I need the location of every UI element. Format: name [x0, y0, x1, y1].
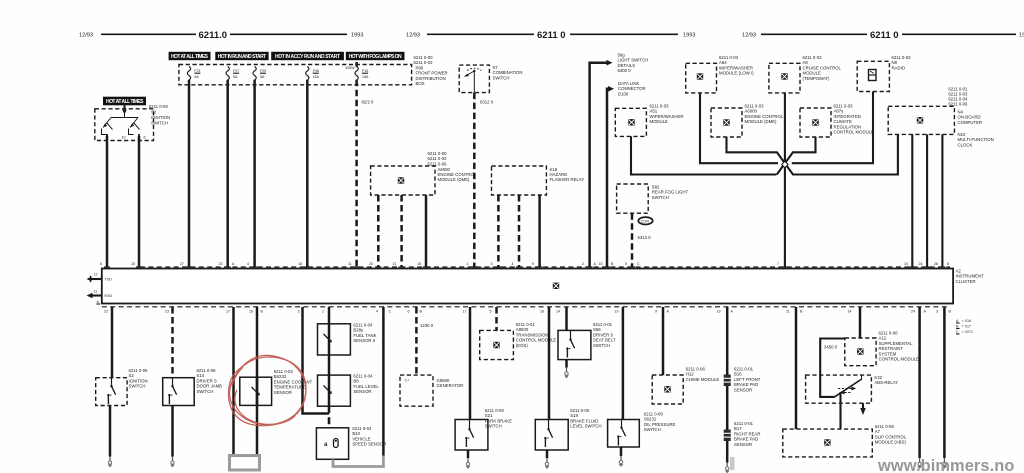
hot with fog lamps on label — [346, 52, 405, 60]
wire A6000 right to splice X (elbow diagonal) — [727, 134, 898, 174]
grey scan smudge left of watermark — [730, 457, 735, 470]
svg-text:SWITCH: SWITCH — [493, 75, 510, 80]
A87y label text — [834, 104, 875, 135]
wire N4 to cluster pin 10 — [911, 134, 913, 267]
header page 2 right rule — [570, 33, 678, 35]
N4 reference numbers — [948, 87, 968, 107]
svg-text:6312 0: 6312 0 — [638, 235, 652, 240]
wire B28y to fuel level sensor — [328, 355, 331, 375]
svg-text:18: 18 — [417, 262, 421, 266]
svg-text:5A: 5A — [233, 75, 238, 79]
wire S7 to cluster pin 1 (dash-dot) — [473, 93, 476, 267]
N8 label text — [892, 55, 912, 70]
wire A6000 pin to cluster pin 21 (dashed) — [400, 195, 403, 267]
cluster bottom pin numbers — [104, 310, 952, 314]
wire cluster pin 17 down (to greyed area) — [232, 307, 235, 456]
wire SRS to ABS relay (elbow) — [820, 339, 845, 397]
header page 3 right rule — [902, 33, 1016, 35]
A7 connector icon — [824, 439, 831, 446]
wire cluster pin 24 to ground — [918, 307, 921, 458]
K18 label text — [550, 167, 585, 182]
svg-text:6211 0: 6211 0 — [537, 30, 566, 41]
S18 switch contact — [544, 420, 552, 447]
svg-text:= X17: = X17 — [962, 325, 972, 329]
svg-text:SWITCH: SWITCH — [652, 195, 669, 200]
B6232 sensor symbol — [252, 387, 260, 395]
svg-text:1993: 1993 — [1019, 33, 1024, 39]
svg-text:6211 0-06: 6211 0-06 — [428, 161, 448, 166]
legend A=X16 B=X17 C=X271 — [956, 319, 973, 334]
svg-text:17: 17 — [226, 310, 230, 314]
S6231 label text — [644, 412, 676, 433]
slip control module A7 dashed box — [783, 429, 873, 457]
svg-text:SWITCH: SWITCH — [485, 424, 502, 429]
right rear brake pad sensor B17 connector — [724, 430, 731, 442]
svg-text:15A: 15A — [313, 75, 320, 79]
wire cluster pin 17 to park brake switch S21 — [469, 307, 472, 420]
svg-text:6: 6 — [144, 136, 146, 140]
svg-text:15A: 15A — [362, 75, 369, 79]
svg-text:= X16: = X16 — [962, 319, 972, 323]
svg-text:20: 20 — [369, 262, 373, 266]
A12 label text — [879, 331, 920, 362]
svg-text:8: 8 — [947, 262, 949, 266]
B28y wire inside — [328, 324, 331, 355]
wire cluster pin 16 through coolant sensor — [256, 307, 259, 456]
ground at pin 3 wire — [942, 458, 947, 469]
oil pressure switch S6231 box — [608, 420, 640, 448]
svg-text:24: 24 — [919, 262, 923, 266]
svg-text:ABS-RELAY: ABS-RELAY — [874, 380, 898, 385]
svg-text:F20: F20 — [260, 69, 266, 73]
svg-text:9: 9 — [655, 310, 657, 314]
B8 wire inside — [328, 375, 331, 406]
A6000 right connector icon — [723, 119, 730, 126]
transmission control module A8500 dashed box — [480, 330, 514, 359]
fuse F20 5A — [253, 67, 266, 81]
A8 connector icon — [781, 73, 788, 80]
svg-text:IGNITION: IGNITION — [151, 115, 170, 120]
ignition switch S2 dashed box — [95, 109, 154, 141]
radio N8 dashed box — [857, 61, 889, 91]
K32 label text — [874, 375, 898, 385]
wire K18 to cluster pin 3 (dashed) — [497, 195, 500, 267]
light switch details label text — [618, 53, 649, 74]
svg-text:19: 19 — [615, 310, 619, 314]
wire S2 left output to cluster pin 6 — [106, 136, 109, 267]
ABS relay K32 dashed box — [806, 375, 872, 403]
driver's seat belt switch S56 box — [558, 330, 591, 359]
ground at brake pad sensors — [725, 463, 730, 473]
svg-text:16: 16 — [298, 262, 302, 266]
A51 connector icon — [628, 119, 635, 126]
header page 3 left rule — [761, 33, 867, 35]
svg-text:GENERATOR: GENERATOR — [437, 383, 464, 388]
N4 connector icon — [917, 117, 924, 124]
wire cluster pin 4 down — [382, 307, 385, 456]
fuse F15 15A — [355, 67, 369, 81]
combination switch S7 dashed box — [459, 65, 489, 93]
SRS control module A12 dashed box — [845, 338, 876, 366]
wire to light switch details (elbow with arrow) — [590, 60, 613, 267]
svg-text:1993: 1993 — [683, 33, 695, 39]
svg-text:SWITCH: SWITCH — [129, 384, 146, 389]
hot in accy run and start label — [271, 52, 344, 60]
A6000 label text — [438, 167, 477, 182]
svg-text:16: 16 — [540, 310, 544, 314]
svg-text:SENSOR: SENSOR — [734, 387, 752, 392]
svg-text:23: 23 — [165, 310, 169, 314]
hot at all times label (ignition) — [103, 97, 146, 106]
instrument cluster A2 bus rectangle — [102, 269, 953, 304]
wire fuse F46 to cluster pin 16 — [306, 80, 309, 267]
wire S21 to ground — [467, 450, 470, 458]
svg-text:CONTROL MODULE: CONTROL MODULE — [879, 357, 920, 362]
wire cluster pin 19 to brake pad sensors — [726, 307, 729, 463]
svg-text:RXD: RXD — [105, 294, 113, 298]
wire S18 to ground — [546, 450, 549, 458]
svg-text:SWITCH: SWITCH — [151, 121, 168, 126]
vehicle speed sensor B10 box — [316, 428, 348, 460]
wire K32 to ground — [862, 403, 864, 408]
ground at S14 — [170, 457, 175, 468]
svg-text:HOT WITH FOG LAMPS ON: HOT WITH FOG LAMPS ON — [349, 54, 402, 60]
A6000 reference numbers — [428, 151, 448, 166]
svg-text:MODULE (DME): MODULE (DME) — [438, 177, 471, 182]
wire cluster pin 11 to slip control module — [795, 307, 798, 429]
svg-text:5A: 5A — [194, 75, 199, 79]
ignition switch S2 lower dashed box — [96, 378, 127, 406]
svg-text:10: 10 — [122, 136, 126, 140]
svg-text:9: 9 — [532, 262, 534, 266]
wire cluster pin 3 to ground — [943, 307, 946, 458]
svg-text:6312 0: 6312 0 — [480, 100, 494, 105]
svg-text:F21: F21 — [194, 69, 200, 73]
cruise control module A8 dashed box — [769, 63, 800, 93]
H12 connector icon — [664, 386, 671, 393]
header page 2 left rule — [427, 33, 534, 35]
svg-text:LEVEL SWITCH: LEVEL SWITCH — [570, 424, 601, 429]
red annotation circle around coolant sensor — [228, 355, 306, 425]
svg-text:CON: CON — [641, 219, 649, 223]
svg-text:HOT IN RUN AND START: HOT IN RUN AND START — [218, 54, 267, 60]
wire cluster pin 23 to door jamb switch S14 (dashed) — [171, 307, 174, 378]
svg-text:12/93: 12/93 — [406, 33, 420, 39]
brake fluid level switch S18 box — [535, 420, 568, 451]
svg-text:5: 5 — [625, 262, 627, 266]
wire K18 to cluster pin 4 (dashed) — [518, 195, 521, 267]
wire cluster pin 14 to seat belt switch S56 — [565, 307, 568, 330]
wire S56 to ground — [565, 360, 568, 368]
svg-text:HOT IN ACCY RUN AND START: HOT IN ACCY RUN AND START — [275, 54, 340, 60]
svg-text:3450 0: 3450 0 — [824, 345, 838, 350]
A12 connector icon — [857, 348, 864, 355]
greyed wire elbow speed sensor to pin 4 wire — [333, 456, 383, 467]
wire cluster pin 22 to ignition switch S2 lower — [111, 307, 114, 378]
ground at S21 — [466, 458, 471, 469]
wiper/washer module A64 dashed box — [686, 63, 717, 93]
svg-text:1: 1 — [322, 310, 324, 314]
cluster connector icon — [553, 282, 560, 289]
B8 sensor symbol — [324, 386, 332, 394]
svg-text:24: 24 — [911, 310, 915, 314]
svg-text:MODULE (DME): MODULE (DME) — [745, 119, 778, 124]
wire A8 down through splice X to cluster pin 7 — [784, 93, 786, 267]
splice X center diamond — [782, 161, 789, 168]
A2 instrument cluster label — [956, 269, 985, 284]
ground at S18 — [545, 458, 550, 469]
ground at S6231 — [619, 456, 624, 467]
svg-text:3: 3 — [491, 262, 493, 266]
wire cluster pin 6 to generator (dashed) — [415, 307, 418, 375]
B8 label text — [353, 374, 379, 395]
A8500 label text — [516, 322, 557, 348]
wire fuse F21 to cluster pin 27 — [188, 80, 191, 267]
wire N4 to cluster pin 26 — [941, 134, 943, 267]
svg-text:MODULE (ABS): MODULE (ABS) — [875, 440, 907, 445]
svg-text:6300 0: 6300 0 — [618, 68, 632, 73]
svg-text:1230 0: 1230 0 — [420, 323, 434, 328]
B10 internal symbols — [324, 439, 338, 449]
wire S2 lower to ground — [109, 406, 112, 457]
wiper/washer module A51 dashed box — [615, 108, 646, 136]
B28y label text — [353, 323, 376, 344]
hazard flasher relay K18 dashed box — [492, 166, 547, 195]
svg-text:SWITCH: SWITCH — [197, 389, 214, 394]
wire N8 to splice X (elbow) — [792, 92, 873, 164]
engine control module A6000 dashed box (right) — [711, 108, 742, 137]
wire K18 to cluster pin 9 — [538, 195, 541, 267]
wire A51 to splice X (elbow) — [631, 136, 777, 174]
data link connector label text — [618, 81, 646, 96]
svg-text:S2: S2 — [151, 110, 157, 115]
wire A6000 pin to cluster pin 18 — [425, 195, 428, 267]
svg-text:MODULE: MODULE — [650, 119, 669, 124]
svg-text:11: 11 — [94, 290, 98, 294]
hot at all times label (fusebox) — [169, 52, 211, 60]
S82 label text — [652, 185, 689, 200]
svg-text:CHIME MODULE: CHIME MODULE — [686, 377, 720, 382]
S56 label text — [593, 322, 616, 348]
wire S14 to ground — [171, 406, 174, 457]
svg-text:SENSOR: SENSOR — [353, 389, 371, 394]
svg-text:11: 11 — [786, 310, 790, 314]
inline connector oval — [638, 217, 652, 224]
svg-text:6211 0-06: 6211 0-06 — [948, 102, 968, 107]
B17 label text — [734, 421, 760, 447]
fuel level sensor B8 box — [318, 375, 351, 406]
svg-text:1993: 1993 — [351, 33, 363, 39]
svg-text:6211 0-00: 6211 0-00 — [149, 104, 169, 109]
S56 switch contact — [566, 331, 574, 358]
ground triangle at K32 — [860, 408, 866, 415]
wire cluster pin 5 to transmission control module (dashed) — [495, 307, 498, 330]
RXD pin 11 arrow — [87, 290, 113, 305]
svg-text:17: 17 — [463, 310, 467, 314]
A6000 connector icon — [398, 177, 405, 184]
S14 switch contact — [168, 377, 176, 404]
wire A87y to splice X (elbow diagonal) — [777, 137, 816, 175]
cluster top pin numbers — [100, 262, 949, 266]
svg-text:15: 15 — [131, 262, 135, 266]
svg-text:SPEED SENSOR: SPEED SENSOR — [352, 442, 386, 447]
svg-text:C: C — [637, 262, 640, 266]
svg-text:5A: 5A — [260, 75, 265, 79]
svg-text:3: 3 — [298, 310, 300, 314]
svg-text:19: 19 — [717, 310, 721, 314]
on-board computer N4 dashed box — [888, 106, 954, 134]
S18 label text — [570, 408, 601, 429]
svg-text:COMPUTER: COMPUTER — [958, 120, 983, 125]
svg-text:82/2 0: 82/2 0 — [362, 100, 375, 105]
wire A64 to splice X (elbow) — [700, 93, 778, 163]
driver's door jamb switch S14 box — [163, 378, 195, 406]
engine control module A6000 dashed box (left) — [371, 166, 435, 195]
svg-text:www.bimmers.no: www.bimmers.no — [877, 457, 1015, 473]
svg-text:C+: C+ — [405, 379, 410, 383]
fuse F27 5A — [226, 67, 239, 81]
P80 box label text — [414, 55, 448, 86]
fuse F21 5A — [187, 67, 200, 81]
wire S6231 to ground — [620, 447, 623, 456]
svg-text:WSW: WSW — [346, 66, 356, 70]
connector dashed line above cluster — [140, 266, 950, 268]
A64 label text — [719, 55, 754, 76]
rear fog light switch S82 dashed box — [617, 184, 649, 213]
svg-text:21: 21 — [393, 262, 397, 266]
H12 label text — [686, 367, 720, 382]
A87y connector icon — [812, 119, 819, 126]
N8 radio icon — [869, 70, 877, 81]
svg-text:11: 11 — [348, 262, 352, 266]
A7 label text — [875, 424, 907, 445]
connector dashed line below cluster — [102, 306, 950, 308]
svg-text:SENSOR: SENSOR — [734, 442, 752, 447]
wire A6000 pin to cluster pin 20 (dashed) — [377, 195, 380, 267]
wire cluster pin 16 to brake fluid level switch S18 — [548, 307, 551, 420]
wire fuse F15 lower segment — [355, 80, 358, 267]
svg-text:3: 3 — [936, 310, 938, 314]
svg-text:6211 0: 6211 0 — [870, 30, 899, 41]
ground at pin 24 wire — [917, 458, 922, 469]
generator G8500 dashed box — [400, 375, 433, 406]
combination switch S7 internal lever — [465, 68, 482, 92]
wire S82 to cluster pin 5 (dashed) — [631, 213, 634, 267]
svg-text:RADIO: RADIO — [892, 65, 906, 70]
wire to data link connector (elbow with arrow) — [607, 86, 614, 267]
svg-text:12/93: 12/93 — [79, 33, 93, 39]
wire fuse F15 to cluster pin 11 (dashed) — [355, 62, 358, 67]
svg-text:1: 1 — [467, 262, 469, 266]
B10 label text — [352, 426, 386, 447]
svg-text:CONTROL MODULE: CONTROL MODULE — [834, 130, 875, 135]
svg-text:27: 27 — [180, 262, 184, 266]
hot in run and start label — [215, 52, 268, 60]
cluster top pin ticks — [104, 266, 945, 268]
engine coolant temperature sensor B6232 box — [240, 377, 272, 405]
svg-text:12/93: 12/93 — [742, 33, 756, 39]
svg-text:5: 5 — [490, 310, 492, 314]
svg-text:26: 26 — [934, 262, 938, 266]
svg-text:6: 6 — [408, 310, 410, 314]
svg-text:15: 15 — [599, 262, 603, 266]
B6232 wire segment inside box — [256, 377, 259, 405]
chime module H12 dashed box — [652, 375, 683, 404]
wire K32 contact to slip control module — [839, 392, 841, 429]
wire B8 to vehicle speed sensor (heavy dash) — [328, 406, 331, 428]
svg-text:10: 10 — [904, 262, 908, 266]
svg-text:4: 4 — [376, 310, 378, 314]
wire cluster pin 3 elbow to speed sensor — [303, 307, 330, 414]
B16 label text — [734, 367, 761, 393]
wire fuse F20 to cluster pin 4 — [253, 80, 256, 267]
B28y sensor symbol — [324, 334, 332, 342]
S6231 switch contact — [617, 419, 625, 446]
B6232 label text — [274, 369, 313, 395]
S2 lower label text — [129, 368, 149, 389]
wire N4 to cluster pin 24 — [926, 134, 928, 267]
S14 label text — [197, 368, 223, 394]
svg-text:16: 16 — [249, 310, 253, 314]
ignition switch S2 label text — [149, 104, 170, 126]
svg-text:F15: F15 — [362, 69, 368, 73]
park brake switch S21 box — [455, 420, 488, 451]
svg-text:(EGS): (EGS) — [516, 343, 529, 348]
S2 lower switch contact — [107, 377, 115, 404]
N4 label text — [958, 110, 983, 125]
wire cluster pin 9 to chime module (solid) — [662, 307, 665, 375]
svg-text:4: 4 — [512, 262, 514, 266]
A8 label text — [803, 55, 842, 81]
left front brake pad sensor B16 connector — [724, 375, 731, 387]
svg-text:C: C — [956, 330, 959, 334]
svg-text:SENSOR: SENSOR — [274, 390, 292, 395]
front power distribution box P80 dashed outline — [179, 65, 412, 85]
ground at S2 lower — [108, 457, 113, 468]
svg-text:2: 2 — [582, 262, 584, 266]
svg-text:(TEMPOMAT): (TEMPOMAT) — [803, 76, 830, 81]
fuel tank sensor II B28y box — [318, 324, 351, 355]
svg-text:7: 7 — [777, 262, 779, 266]
svg-text:CLOCK: CLOCK — [958, 142, 973, 147]
N10 multi-function clock label text — [958, 132, 994, 147]
svg-text:14: 14 — [556, 310, 560, 314]
svg-text:BOX: BOX — [416, 81, 425, 86]
svg-text:= X271: = X271 — [962, 330, 974, 334]
svg-text:D100: D100 — [618, 91, 629, 96]
A51 label text — [650, 104, 684, 125]
S21 switch contact — [465, 420, 473, 447]
A8500 connector icon — [493, 342, 500, 349]
header page 1 right rule — [230, 33, 347, 35]
svg-text:22: 22 — [104, 310, 108, 314]
svg-text:F46: F46 — [313, 69, 319, 73]
svg-text:6: 6 — [100, 262, 102, 266]
svg-text:F27: F27 — [233, 69, 239, 73]
A64 connector icon — [697, 73, 704, 80]
ignition switch S2 internal contacts — [102, 112, 141, 136]
wire cluster pin 14 to SRS module — [859, 307, 862, 338]
svg-text:FLASHER RELAY: FLASHER RELAY — [550, 177, 585, 182]
svg-text:SENSOR II: SENSOR II — [353, 338, 375, 343]
S21 label text — [485, 408, 512, 429]
G8500 label text — [437, 378, 464, 388]
svg-text:MODULE (LOW I): MODULE (LOW I) — [719, 71, 754, 76]
wire fuse F27 to cluster pin 23 — [226, 80, 229, 267]
svg-text:23: 23 — [219, 262, 223, 266]
wire S2 right output to cluster pin 15 — [138, 136, 141, 267]
svg-text:C: C — [389, 310, 392, 314]
